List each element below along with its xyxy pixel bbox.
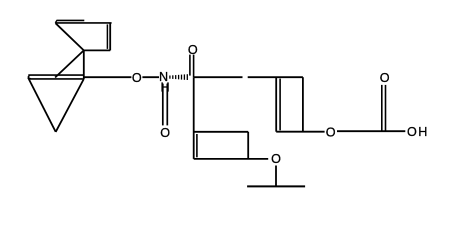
svg-text:O: O bbox=[188, 43, 198, 57]
svg-text:O: O bbox=[326, 126, 336, 140]
svg-text:O: O bbox=[160, 126, 170, 140]
svg-text:O: O bbox=[380, 71, 390, 85]
svg-text:H: H bbox=[161, 80, 170, 94]
svg-text:O: O bbox=[132, 71, 142, 85]
svg-text:O: O bbox=[271, 152, 281, 166]
svg-text:OH: OH bbox=[407, 125, 429, 139]
